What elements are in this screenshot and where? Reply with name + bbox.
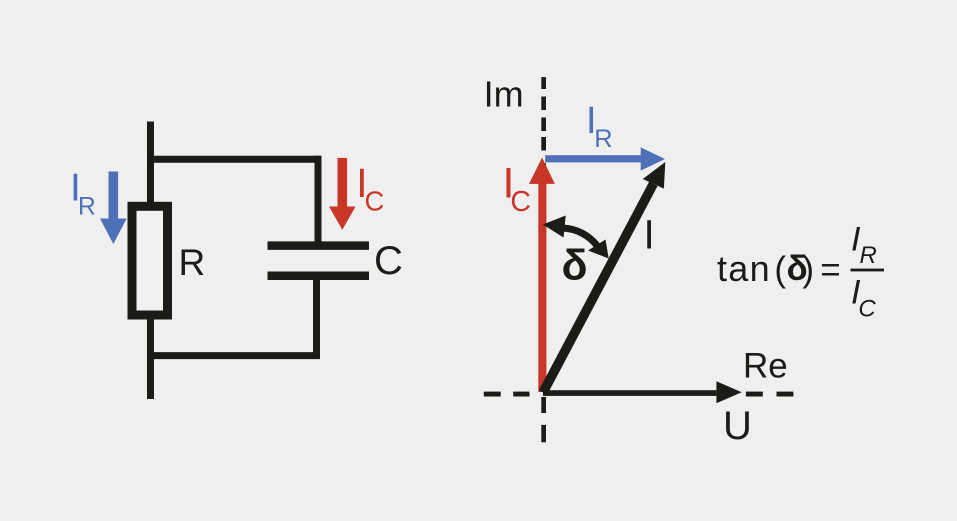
svg-text:C: C <box>374 239 403 283</box>
svg-text:tan: tan <box>717 248 771 289</box>
svg-text:R: R <box>78 193 96 220</box>
svg-text:C: C <box>510 186 531 218</box>
svg-text:Re: Re <box>743 347 788 386</box>
svg-text:): ) <box>802 250 814 289</box>
svg-text:R: R <box>594 125 612 153</box>
svg-text:C: C <box>858 295 876 322</box>
svg-text:(: ( <box>774 250 786 289</box>
svg-text:R: R <box>860 242 877 269</box>
svg-text:R: R <box>179 242 206 283</box>
svg-text:C: C <box>365 186 385 217</box>
svg-text:δ: δ <box>562 242 588 290</box>
svg-text:U: U <box>723 404 752 448</box>
svg-text:Im: Im <box>484 74 524 115</box>
svg-text:=: = <box>820 251 840 290</box>
svg-text:I: I <box>644 212 655 258</box>
